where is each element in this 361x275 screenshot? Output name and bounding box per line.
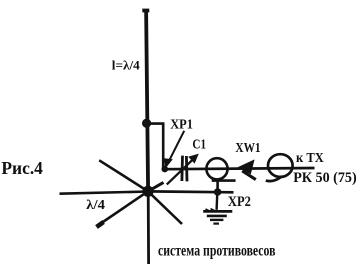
ground (earth) symbol	[203, 192, 232, 224]
node: ground junction	[214, 188, 222, 196]
connector shield bar	[212, 179, 236, 182]
svg-text:система противовесов: система противовесов	[158, 243, 276, 260]
svg-text:l=λ/4: l=λ/4	[112, 58, 140, 73]
svg-text:C1: C1	[192, 137, 206, 152]
wire from tap node to feed line	[147, 124, 163, 169]
variable capacitor adjustment arrow	[167, 154, 199, 185]
svg-text:XP1: XP1	[170, 117, 193, 132]
counterpoise radial wire (lower right)	[148, 191, 182, 224]
counterpoise radial wire (upper right)	[148, 182, 164, 191]
wire from connector to ground junction	[216, 181, 219, 193]
node: feed junction XP1 point	[162, 166, 169, 173]
svg-text:РК 50 (75): РК 50 (75)	[293, 170, 357, 186]
wire: vertical drop below star center	[147, 191, 150, 264]
counterpoise radial wire (upper left)	[99, 160, 148, 191]
antenna radiator wire (vertical element)	[142, 9, 149, 191]
arrowhead toward antenna on feed line	[238, 159, 256, 179]
svg-text:XP2: XP2	[228, 194, 251, 210]
wire: counterpoise bus from star center to ground	[148, 190, 234, 194]
capacitor C1 plates	[182, 156, 187, 182]
wire: horizontal feed line	[164, 168, 315, 169]
connector XW1 (coax socket circle)	[206, 158, 227, 179]
coax cable loop	[266, 154, 293, 181]
counterpoise radial wire (lower left)	[97, 191, 149, 227]
leader arrow from XP1 label to junction	[164, 131, 184, 169]
svg-text:к ТХ: к ТХ	[296, 151, 324, 166]
svg-text:XW1: XW1	[235, 140, 260, 155]
counterpoise radial wire (left horizontal)	[60, 192, 149, 194]
svg-text:Рис.4: Рис.4	[1, 158, 43, 178]
svg-text:λ/4: λ/4	[86, 197, 105, 212]
node: tap point on radiator	[142, 119, 151, 128]
node: counterpoise star center	[142, 186, 153, 197]
